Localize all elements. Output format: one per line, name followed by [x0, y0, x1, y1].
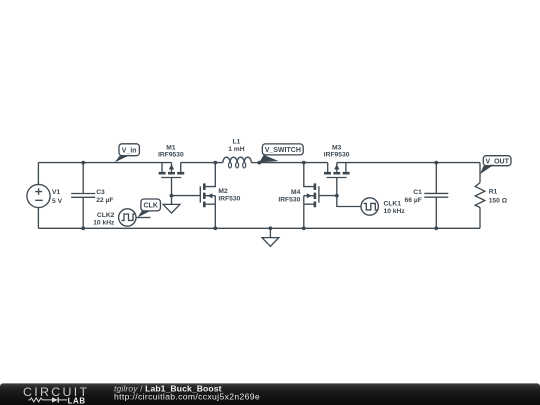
svg-text:V1: V1: [52, 189, 60, 196]
svg-text:IRF530: IRF530: [218, 196, 240, 203]
transistor M3 (PMOS IRF9530, horizontal mirrored): [324, 163, 350, 196]
CircuitLab logo wordmark: [23, 385, 89, 405]
svg-text:C1: C1: [413, 189, 422, 196]
label R1 / 150 Ω: [489, 188, 508, 204]
junction: M2 source at bottom rail: [213, 226, 217, 230]
label M2 / IRF530: [218, 188, 240, 202]
svg-text:M1: M1: [166, 145, 176, 152]
logo circuit glyph (resistor + diode): [28, 397, 67, 402]
svg-text:V_SWITCH: V_SWITCH: [265, 147, 301, 154]
ground symbol at gate node: [163, 196, 180, 214]
junction: M1/M2 gate node: [170, 194, 174, 198]
ground symbol (main): [262, 228, 279, 246]
label C3 / 22 µF: [96, 189, 113, 204]
junction: V_SWITCH node: [257, 161, 261, 165]
wire: top rail middle segment (V_SWITCH net, M1 drain to M3 drain): [181, 162, 328, 164]
junction: C1 top: [434, 161, 438, 165]
junction: M2 drain at top rail: [213, 161, 217, 165]
label L1 / 1 mH: [228, 139, 245, 153]
wire: top rail left segment (V_in net): [38, 162, 171, 164]
svg-text:M3: M3: [332, 145, 342, 152]
wire: bottom rail (ground net): [38, 227, 480, 229]
svg-text:V_in: V_in: [122, 147, 137, 154]
svg-text:66 µF: 66 µF: [405, 197, 422, 204]
svg-text:IRF9530: IRF9530: [324, 152, 350, 159]
svg-text:LAB: LAB: [68, 396, 86, 405]
transistor M4 (NMOS IRF530, mirrored): [304, 163, 337, 229]
junction: C1 bottom: [434, 226, 438, 230]
net flag V_OUT: [480, 156, 511, 175]
svg-text:M2: M2: [218, 188, 228, 195]
junction: M4 source at bottom rail: [302, 226, 306, 230]
svg-text:22 µF: 22 µF: [96, 197, 113, 204]
transistor M2 (NMOS IRF530): [200, 163, 215, 229]
label CLK2 / 10 kHz: [93, 212, 115, 226]
svg-text:C3: C3: [96, 189, 105, 196]
label M1 / IRF9530: [158, 145, 184, 159]
net flag V_SWITCH: [259, 144, 303, 163]
inductor L1: [223, 157, 259, 168]
clock source CLK1: [337, 196, 379, 216]
resistor R1: [475, 163, 485, 229]
svg-text:http://circuitlab.com/ccxuj5x2: http://circuitlab.com/ccxuj5x2n269e: [114, 391, 260, 401]
svg-text:IRF9530: IRF9530: [158, 152, 184, 159]
svg-text:CLK1: CLK1: [384, 201, 402, 208]
junction: M4 drain at top rail: [302, 161, 306, 165]
junction: M3/M4 gate node: [335, 194, 339, 198]
junction: C3 bottom: [81, 226, 85, 230]
label M3 / IRF9530: [324, 145, 350, 159]
net flag CLK: [138, 199, 161, 217]
label V1 / 5 V: [52, 189, 63, 205]
svg-text:5 V: 5 V: [52, 198, 63, 205]
voltage source V1: [27, 163, 50, 229]
label M4 / IRF530: [278, 189, 300, 204]
junction: C3 top: [81, 161, 85, 165]
transistor M1 (PMOS IRF9530, horizontal): [159, 163, 185, 196]
net flag V_in: [115, 144, 140, 163]
capacitor C3: [71, 163, 95, 229]
svg-text:L1: L1: [232, 139, 240, 146]
svg-text:10 kHz: 10 kHz: [384, 208, 406, 215]
svg-text:IRF530: IRF530: [278, 197, 300, 204]
svg-text:R1: R1: [489, 188, 498, 195]
capacitor C1: [424, 163, 448, 229]
svg-text:150 Ω: 150 Ω: [489, 198, 508, 205]
svg-text:10 kHz: 10 kHz: [93, 219, 115, 226]
svg-text:CLK: CLK: [144, 203, 158, 210]
clock source CLK2: [119, 209, 151, 226]
svg-text:1 mH: 1 mH: [228, 146, 245, 153]
junction: ground tap on bottom rail: [269, 226, 273, 230]
svg-text:M4: M4: [291, 189, 301, 196]
label C1 / 66 µF: [405, 189, 423, 204]
svg-text:CLK2: CLK2: [97, 212, 115, 219]
label CLK1 / 10 kHz: [384, 201, 406, 216]
wire: gate node to M2 gate: [172, 195, 201, 197]
footer credit text: [114, 383, 260, 401]
wire: top rail right segment (V_OUT net, M3 source to R1): [337, 162, 480, 164]
svg-text:V_OUT: V_OUT: [486, 158, 510, 165]
